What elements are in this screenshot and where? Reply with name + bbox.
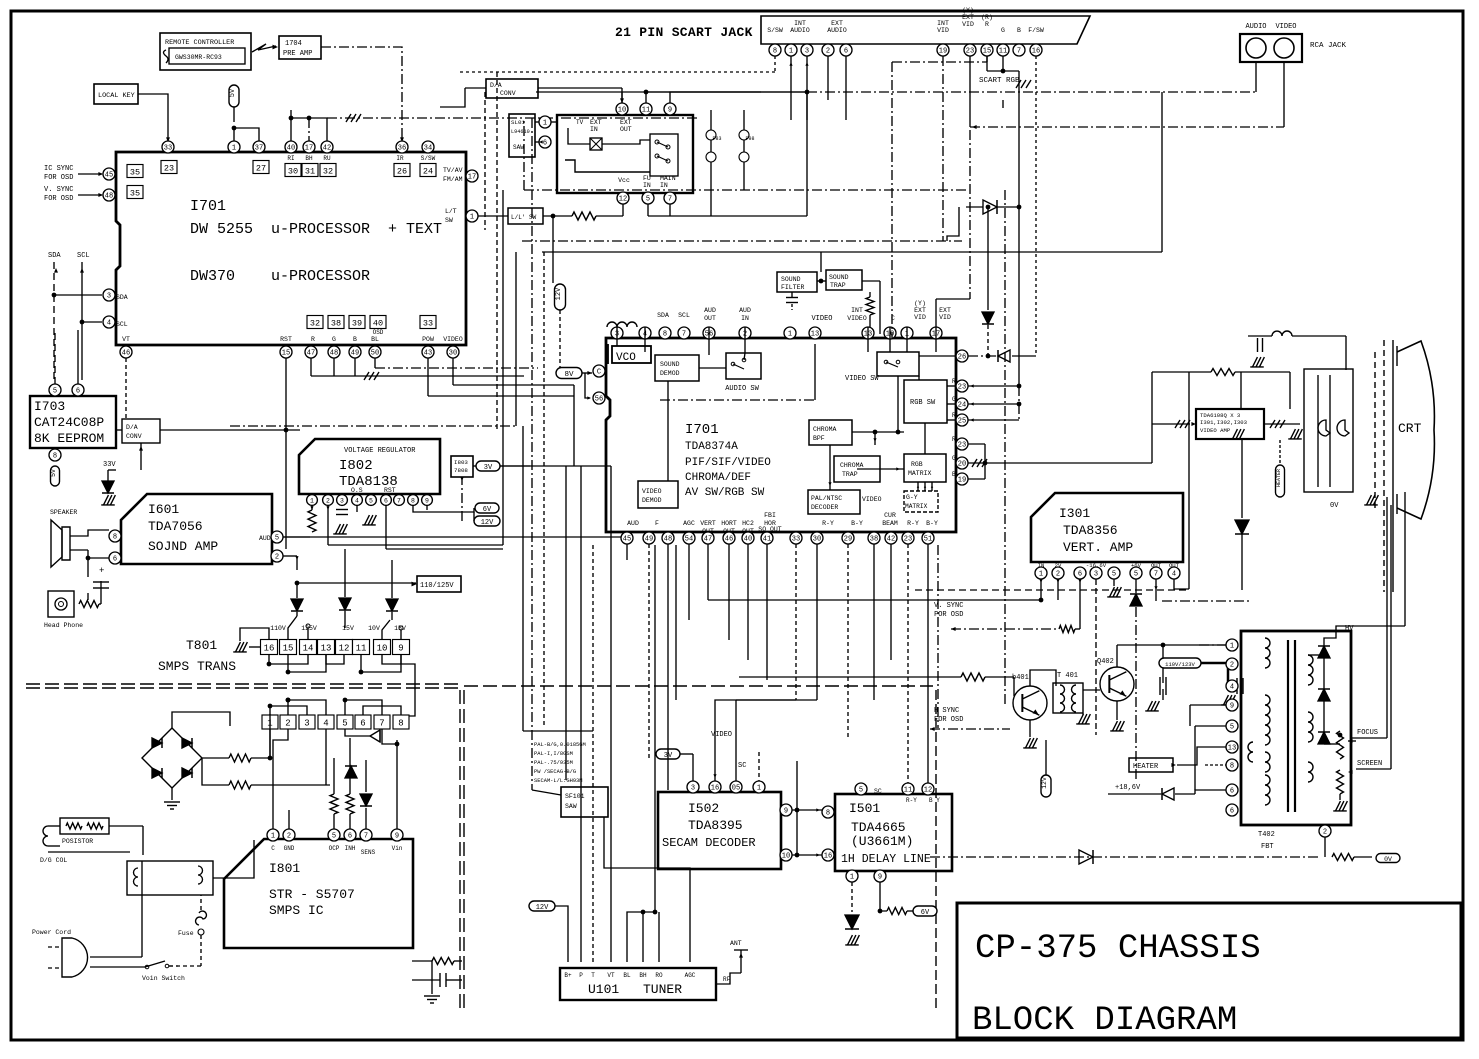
- audio sw box: [726, 353, 761, 379]
- svg-text:SCL: SCL: [678, 312, 690, 319]
- svg-text:VID: VID: [914, 314, 926, 321]
- u-processor I701 block: [116, 152, 466, 345]
- svg-text:42: 42: [323, 145, 331, 153]
- svg-text:2: 2: [1230, 662, 1234, 670]
- svg-text:13: 13: [811, 331, 819, 339]
- svg-text:7: 7: [379, 718, 384, 728]
- svg-text:T 401: T 401: [1057, 672, 1078, 680]
- svg-text:T801: T801: [186, 638, 217, 653]
- T801 primary pin boxes: [262, 715, 278, 729]
- svg-text:I501: I501: [849, 801, 880, 816]
- wires uP bottom to right: [310, 358, 312, 376]
- svg-text:16: 16: [711, 785, 719, 793]
- svg-text:VIDEO SW: VIDEO SW: [845, 375, 879, 383]
- svg-text:INT: INT: [937, 20, 949, 27]
- svg-text:AUD: AUD: [704, 307, 716, 314]
- wire scart pins down: [774, 56, 776, 72]
- wire DA conv: [160, 429, 300, 431]
- video demod box: [638, 481, 678, 508]
- FBT left pins: [1226, 639, 1238, 651]
- wire 110/125V feed: [297, 582, 416, 584]
- svg-text:7: 7: [1154, 571, 1158, 579]
- svg-text:AV SW/RGB SW: AV SW/RGB SW: [685, 487, 765, 499]
- FBT pin2 bottom: [1319, 825, 1331, 837]
- svg-text:INT: INT: [851, 307, 863, 314]
- RCA jack J2: [1240, 34, 1302, 62]
- svg-text:PAL-I,I/8GSM: PAL-I,I/8GSM: [534, 751, 573, 757]
- svg-text:FILTER: FILTER: [781, 284, 805, 291]
- I703 pins top: [49, 384, 61, 396]
- box 110/125V: [417, 576, 461, 592]
- top inductor network: [1272, 331, 1292, 336]
- heater box: [1129, 758, 1173, 772]
- svg-text:Q402: Q402: [1097, 658, 1114, 666]
- delay line I501 block: [835, 794, 952, 871]
- resistor near headphone: [79, 601, 99, 608]
- svg-text:3: 3: [805, 48, 809, 56]
- snubber RC right: [432, 958, 454, 965]
- svg-text:VIDEO: VIDEO: [1275, 23, 1296, 31]
- pill 6V right: [913, 906, 937, 916]
- svg-text:DECODER: DECODER: [811, 504, 838, 511]
- diode video amp: [1235, 520, 1249, 534]
- extra dashdot vertical: [937, 545, 939, 728]
- svg-text:12V: 12V: [481, 519, 494, 527]
- svg-text:B: B: [952, 471, 956, 478]
- bundle from central bottom to bottom area: [626, 544, 628, 560]
- svg-text:48: 48: [105, 193, 113, 201]
- svg-text:33: 33: [423, 318, 433, 328]
- pill 8V: [556, 368, 582, 379]
- 12V pill vert: [1041, 775, 1051, 797]
- svg-text:+18,6V: +18,6V: [1115, 784, 1141, 792]
- SCART pin 8: [769, 44, 781, 56]
- svg-text:I301: I301: [1059, 506, 1090, 521]
- I803 7808 box: [451, 456, 473, 477]
- wire 15V to Vin: [401, 655, 415, 716]
- SAW pins: [539, 116, 551, 128]
- coil over pins 3-4: [607, 322, 637, 327]
- svg-text:SC: SC: [738, 762, 746, 770]
- wire local key to pin33: [138, 94, 168, 142]
- svg-text:4: 4: [107, 320, 111, 328]
- svg-text:5: 5: [332, 833, 336, 841]
- svg-text:110/125V: 110/125V: [420, 582, 454, 590]
- I502 pill 3V: [656, 749, 680, 759]
- central left pins: [593, 365, 605, 377]
- svg-text:AUDIO: AUDIO: [1245, 23, 1266, 31]
- svg-text:BLOCK DIAGRAM: BLOCK DIAGRAM: [972, 1002, 1237, 1040]
- pill 3V: [476, 461, 500, 471]
- svg-text:Power Cord: Power Cord: [32, 929, 71, 936]
- wires I601 outputs: [283, 536, 310, 538]
- svg-text:2: 2: [287, 833, 291, 841]
- svg-text:8: 8: [411, 498, 415, 505]
- svg-text:54: 54: [685, 536, 693, 544]
- AV switch block: [557, 115, 693, 193]
- svg-text:EXT: EXT: [620, 119, 632, 126]
- wire cord to switch: [90, 956, 142, 958]
- svg-text:R: R: [952, 436, 956, 443]
- isolation barrier dashed: [26, 683, 459, 685]
- wire diode row 207: [947, 207, 959, 241]
- svg-text:AUDIO SW: AUDIO SW: [725, 385, 759, 393]
- I601 pin 8: [109, 530, 121, 542]
- wire I703 pins up: [54, 330, 56, 384]
- I801 pins: [267, 829, 279, 841]
- primary top links: [270, 706, 307, 715]
- svg-text:30: 30: [813, 536, 821, 544]
- svg-text:R-Y: R-Y: [907, 520, 919, 527]
- svg-text:DW370 u-PROCESSOR: DW370 u-PROCESSOR: [190, 268, 370, 285]
- svg-text:23: 23: [966, 48, 974, 56]
- svg-text:Voin Switch: Voin Switch: [142, 975, 185, 982]
- svg-text:32: 32: [310, 318, 320, 328]
- diodes from supplies: [291, 599, 303, 611]
- svg-text:42: 42: [887, 536, 895, 544]
- svg-text:I601: I601: [148, 502, 179, 517]
- svg-text:I301,I302,I303: I301,I302,I303: [1200, 419, 1247, 426]
- T801 switch contacts: [288, 616, 297, 640]
- bottom 0V rail: [930, 856, 1320, 858]
- stub gun feed: [1289, 372, 1291, 409]
- uP inner numbered boxes top: [127, 165, 143, 178]
- transistor sym: [370, 730, 380, 742]
- svg-text:12V: 12V: [1041, 777, 1048, 789]
- svg-text:VIDEO: VIDEO: [711, 731, 732, 739]
- wire top bus scart: [536, 91, 761, 93]
- svg-text:VT: VT: [607, 972, 615, 979]
- headphone jack: [48, 591, 74, 617]
- svg-text:GND: GND: [284, 845, 295, 852]
- resistor top right: [1211, 369, 1235, 376]
- svg-text:I701: I701: [190, 198, 226, 215]
- svg-text:125V: 125V: [301, 625, 317, 632]
- svg-text:24: 24: [958, 402, 966, 410]
- wires AV top: [669, 204, 671, 216]
- svg-text:SPEAKER: SPEAKER: [50, 509, 77, 516]
- svg-text:33V: 33V: [103, 461, 116, 469]
- svg-text:L94610: L94610: [511, 129, 530, 135]
- svg-text:C: C: [597, 369, 601, 377]
- svg-text:LOCAL KEY: LOCAL KEY: [98, 92, 135, 100]
- svg-text:Head Phone: Head Phone: [44, 622, 83, 629]
- svg-text:IR: IR: [396, 155, 404, 162]
- svg-text:15: 15: [283, 643, 294, 653]
- svg-text:6: 6: [1230, 808, 1234, 816]
- svg-text:VIDEO: VIDEO: [811, 315, 832, 323]
- svg-text:16: 16: [264, 643, 275, 653]
- svg-text:R: R: [311, 336, 315, 343]
- svg-text:3: 3: [691, 785, 695, 793]
- svg-text:AGC: AGC: [683, 520, 695, 527]
- svg-text:IN: IN: [643, 182, 651, 189]
- svg-text:8: 8: [773, 48, 777, 56]
- svg-text:TDA8356: TDA8356: [1063, 523, 1118, 538]
- svg-text:11: 11: [999, 48, 1007, 56]
- svg-text:9: 9: [425, 498, 429, 505]
- svg-text:TV: TV: [576, 119, 584, 126]
- video processor I201 block: [606, 338, 956, 532]
- focus screen resistors: [1337, 731, 1344, 759]
- svg-text:0V: 0V: [1384, 856, 1392, 863]
- svg-text:CONV: CONV: [500, 90, 516, 97]
- svg-text:FM/AM: FM/AM: [443, 176, 463, 183]
- resistor after LL SW: [572, 212, 596, 220]
- svg-text:POW: POW: [422, 336, 434, 343]
- wire primary loop: [141, 861, 143, 895]
- svg-text:9: 9: [784, 808, 788, 816]
- long wire under scart: [807, 91, 1060, 93]
- svg-text:S/SW: S/SW: [767, 27, 783, 34]
- long dashdot rows middle: [524, 189, 968, 191]
- svg-text:30: 30: [449, 350, 457, 358]
- svg-text:6: 6: [113, 556, 117, 564]
- svg-text:B: B: [1017, 27, 1021, 34]
- svg-text:5: 5: [369, 498, 373, 505]
- central right pins: [956, 350, 968, 362]
- I802 pins: [307, 495, 318, 506]
- svg-text:1H DELAY LINE: 1H DELAY LINE: [841, 853, 931, 866]
- wire R branch diode: [987, 207, 989, 310]
- svg-text:AUD: AUD: [259, 535, 271, 542]
- svg-text:1: 1: [1230, 643, 1234, 651]
- svg-text:VIDEO: VIDEO: [443, 336, 463, 343]
- central top pins: [611, 327, 623, 339]
- svg-text:SDA: SDA: [657, 312, 669, 319]
- wire video amp down: [1241, 439, 1243, 518]
- svg-text:EXT: EXT: [939, 307, 951, 314]
- svg-text:(U3661M): (U3661M): [851, 834, 913, 849]
- svg-text:L/L' SW: L/L' SW: [511, 214, 537, 221]
- svg-text:SCL: SCL: [116, 321, 128, 328]
- svg-text:VT: VT: [122, 336, 130, 343]
- svg-text:47: 47: [307, 350, 315, 358]
- diode 18.6V: [1162, 788, 1174, 800]
- svg-text:48: 48: [330, 350, 338, 358]
- uP pin 17: [303, 141, 315, 153]
- diode on ext video line: [998, 350, 1010, 362]
- svg-text:23: 23: [958, 442, 966, 450]
- svg-text:7: 7: [668, 196, 672, 204]
- svg-text:11: 11: [356, 643, 367, 653]
- svg-text:PAL/NTSC: PAL/NTSC: [811, 495, 842, 502]
- wire rgb bus down to central: [1018, 71, 1020, 386]
- uP pin 37: [253, 141, 265, 153]
- svg-text:5V: 5V: [229, 88, 237, 97]
- SAW filter SF101 box: [561, 787, 608, 817]
- line degauss: [109, 825, 143, 827]
- chroma trap box: [834, 456, 880, 482]
- SCART pin 23: [964, 44, 976, 56]
- svg-text:25: 25: [958, 418, 966, 426]
- svg-text:2: 2: [326, 498, 330, 505]
- svg-text:3: 3: [1094, 571, 1098, 579]
- svg-text:33: 33: [792, 536, 800, 544]
- svg-text:VCO: VCO: [616, 352, 636, 364]
- svg-text:47: 47: [704, 536, 712, 544]
- svg-text:FBI: FBI: [764, 512, 776, 519]
- svg-text:S/SW: S/SW: [421, 155, 436, 162]
- svg-text:110V/123V: 110V/123V: [1165, 661, 1195, 668]
- AV switch pins bottom: [617, 192, 629, 204]
- svg-text:9: 9: [398, 643, 403, 653]
- svg-text:FOR OSD: FOR OSD: [44, 174, 73, 182]
- svg-text:5V: 5V: [50, 469, 57, 477]
- svg-text:INH: INH: [345, 845, 356, 852]
- svg-text:35: 35: [130, 188, 140, 198]
- connector J1 21-pin SCART jack body: [761, 16, 1090, 44]
- svg-text:15: 15: [983, 48, 991, 56]
- EEPROM I703 block: [30, 396, 116, 448]
- svg-text:8: 8: [663, 331, 667, 339]
- svg-text:G: G: [952, 455, 956, 462]
- X box: [590, 138, 602, 150]
- svg-text:SENS: SENS: [361, 849, 376, 856]
- svg-text:40: 40: [744, 536, 752, 544]
- T801 under-links: [269, 655, 308, 664]
- svg-text:34: 34: [424, 145, 432, 153]
- svg-text:G-Y: G-Y: [906, 494, 918, 501]
- svg-text:3: 3: [107, 293, 111, 301]
- svg-text:SW: SW: [445, 217, 453, 224]
- svg-text:6: 6: [384, 498, 388, 505]
- svg-text:0V: 0V: [1330, 502, 1339, 510]
- sound demod box: [655, 355, 699, 381]
- svg-text:TRAP: TRAP: [842, 471, 858, 478]
- wires filter trap: [817, 280, 826, 282]
- svg-text:3: 3: [340, 498, 344, 505]
- FBT secondary coils: [1308, 655, 1313, 685]
- wire scart S/SW dashdot: [460, 71, 742, 73]
- speaker: [62, 527, 70, 560]
- svg-text:1: 1: [788, 331, 792, 339]
- svg-text:RCA JACK: RCA JACK: [1310, 42, 1347, 50]
- svg-text:P83: P83: [712, 136, 721, 142]
- svg-text:2: 2: [285, 718, 290, 728]
- svg-text:2: 2: [275, 554, 279, 562]
- svg-text:BL: BL: [371, 336, 379, 343]
- svg-text:D/A: D/A: [490, 82, 502, 89]
- wire int vid down: [942, 56, 944, 241]
- tuner U101 block: [560, 968, 716, 1000]
- svg-text:12: 12: [339, 643, 350, 653]
- svg-text:L/T: L/T: [445, 208, 457, 215]
- flyback transformer T402 block: [1241, 631, 1351, 825]
- svg-text:D/G COL: D/G COL: [40, 857, 67, 864]
- svg-text:I801: I801: [269, 861, 300, 876]
- svg-text:6: 6: [348, 833, 352, 841]
- svg-text:12V: 12V: [536, 904, 549, 912]
- svg-text:41: 41: [763, 536, 771, 544]
- wire bus to right: [327, 117, 700, 119]
- svg-text:I803: I803: [454, 459, 468, 466]
- svg-text:19: 19: [939, 48, 947, 56]
- svg-text:6: 6: [543, 140, 547, 148]
- svg-text:PAL-.75/935M: PAL-.75/935M: [534, 760, 573, 766]
- svg-text:BPF: BPF: [813, 435, 825, 442]
- CRT bell: [1397, 341, 1434, 519]
- capacitor fly: [1159, 677, 1161, 695]
- svg-text:B: B: [353, 336, 357, 343]
- svg-text:16: 16: [1032, 48, 1040, 56]
- svg-text:ANT: ANT: [730, 940, 742, 947]
- svg-text:P: P: [579, 972, 583, 979]
- SCART pin 6: [840, 44, 852, 56]
- svg-text:Vin: Vin: [392, 845, 403, 852]
- svg-text:8: 8: [398, 718, 403, 728]
- svg-text:CHROMA/DEF: CHROMA/DEF: [685, 472, 751, 484]
- I502 right pins: [780, 804, 792, 816]
- svg-text:14: 14: [303, 643, 314, 653]
- svg-text:51: 51: [924, 536, 932, 544]
- wire SDA vertical: [53, 262, 55, 295]
- I601 pin 2: [271, 550, 283, 562]
- svg-text:9: 9: [878, 874, 882, 882]
- sound trap box: [826, 270, 862, 290]
- I801 top components: [272, 747, 274, 829]
- video amp block: [1196, 409, 1264, 439]
- svg-text:RGB SW: RGB SW: [910, 399, 936, 407]
- video sw box: [877, 352, 919, 376]
- svg-text:I703: I703: [34, 399, 65, 414]
- svg-text:1: 1: [789, 48, 793, 56]
- wire video amp feed: [1188, 372, 1190, 589]
- CRT gun assembly: [1304, 369, 1353, 492]
- svg-text:I802: I802: [339, 458, 373, 474]
- svg-text:17: 17: [305, 145, 313, 153]
- svg-text:6: 6: [1230, 788, 1234, 796]
- svg-text:HEATER: HEATER: [1276, 469, 1282, 487]
- svg-text:SAW: SAW: [565, 803, 577, 810]
- 5V pill: [229, 85, 239, 107]
- svg-text:RO: RO: [655, 972, 663, 979]
- svg-text:RU: RU: [323, 155, 331, 162]
- svg-text:IC SYNC: IC SYNC: [44, 165, 73, 173]
- svg-text:6V: 6V: [921, 909, 930, 917]
- svg-text:I502: I502: [688, 801, 719, 816]
- SCART pin 1: [785, 44, 797, 56]
- svg-text:VID: VID: [939, 314, 951, 321]
- voltage regulator I802 block: [299, 439, 440, 494]
- wire speaker to I601: [70, 530, 109, 536]
- svg-text:1: 1: [470, 214, 474, 222]
- svg-text:(Y): (Y): [962, 7, 974, 14]
- wire pins 40,17,42 bus: [291, 118, 327, 141]
- svg-text:SECAM DECODER: SECAM DECODER: [662, 836, 756, 850]
- svg-text:STR - S5707: STR - S5707: [269, 887, 355, 902]
- svg-text:23: 23: [958, 384, 966, 392]
- svg-text:29: 29: [844, 536, 852, 544]
- SCART pin 19: [937, 44, 949, 56]
- svg-text:SL01: SL01: [511, 119, 525, 126]
- svg-text:BL: BL: [623, 972, 631, 979]
- svg-text:1: 1: [757, 785, 761, 793]
- bridge rectifier B801: [142, 728, 202, 788]
- svg-text:GWS30MR-RC93: GWS30MR-RC93: [175, 54, 222, 61]
- svg-text:36: 36: [398, 145, 406, 153]
- svg-text:P98: P98: [745, 136, 754, 142]
- svg-text:16: 16: [824, 853, 832, 861]
- svg-text:SOJND AMP: SOJND AMP: [148, 539, 218, 554]
- svg-text:EXT: EXT: [914, 307, 926, 314]
- svg-text:05: 05: [732, 785, 740, 793]
- svg-text:R-Y: R-Y: [822, 520, 834, 527]
- svg-text:31: 31: [305, 166, 315, 176]
- SCART pin 7: [1013, 44, 1025, 56]
- svg-text:CRT: CRT: [1398, 421, 1422, 436]
- I703 pill: [51, 466, 60, 486]
